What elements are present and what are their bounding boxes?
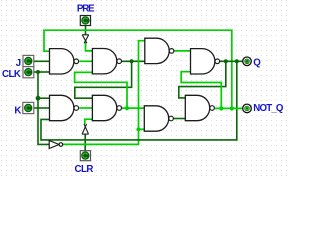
node D output junction 1 [224, 59, 228, 63]
node H output junction 1 [219, 106, 223, 110]
wire inverted clock from U9 to gates U3 and U7 [63, 41, 145, 145]
input button CLR [80, 151, 90, 161]
wire B output cross-couple to gate U6 input [75, 61, 132, 98]
svg-text:CLR: CLR [75, 164, 94, 175]
NAND gate U4 (slave latch Q) [191, 49, 220, 74]
wire H output to NOT_Q [215, 107, 242, 109]
wire PRE net side to gate U2 input [86, 42, 93, 51]
wire CLK to gate U1 input [34, 71, 50, 73]
wire J to gate U1 input [34, 60, 50, 62]
node F output junction [125, 106, 129, 110]
input button J [23, 55, 34, 66]
inverter U9 (clock) [49, 141, 63, 149]
node H output junction 2 [230, 106, 234, 110]
wire H output cross-couple to gate U4 input [181, 72, 221, 109]
wire NOT_Q feedback rail [44, 30, 232, 108]
svg-text:CLK: CLK [2, 69, 21, 80]
input button PRE [80, 16, 90, 26]
label PRE [77, 3, 95, 14]
output LED Q [243, 57, 252, 66]
wire C output to gate U4 [174, 50, 190, 52]
NAND gate U1 (J input) [50, 49, 79, 74]
wire CLR net side to gate U6 input [85, 119, 93, 124]
label NOT_Q [253, 103, 284, 114]
NAND gate U6 (master latch) [92, 95, 121, 120]
NAND gate U3 (clock gate top) [145, 38, 174, 63]
wire CLR box side [84, 134, 86, 151]
label CLR [75, 164, 94, 175]
NAND gate U5 (K input) [50, 95, 79, 120]
wire F output to gate U7 [122, 107, 145, 109]
wire D output to Q [220, 60, 243, 62]
wire E output to gate U6 [79, 107, 92, 109]
wire A output to gate U2 [79, 60, 92, 62]
wire PRE box side [85, 26, 87, 35]
wire Q feedback to gate U5 input [41, 61, 237, 140]
node D output junction 2 [235, 59, 239, 63]
node CLK junction at gate A [36, 70, 40, 74]
input button K [23, 102, 34, 113]
label Q [253, 57, 261, 68]
wire F output cross-couple to gate U2 input [75, 72, 127, 108]
svg-text:K: K [14, 105, 21, 116]
input button CLK [23, 67, 34, 78]
wire CLK branch to gate U5 input [38, 97, 50, 99]
wire B output to gate U3 [122, 60, 145, 62]
svg-text:Q: Q [253, 57, 261, 68]
wire K to gate U5 input [34, 107, 50, 109]
node CLK junction at gate E [36, 96, 41, 101]
pin arrow on CLR wire [82, 124, 89, 134]
wire G output to gate U8 [174, 118, 185, 120]
node B output junction [130, 59, 134, 63]
wire CLK vertical trunk [38, 72, 49, 144]
pin arrow on PRE wire [82, 35, 89, 44]
wire inverted clock branch to gate U7 input [139, 128, 145, 130]
svg-text:J: J [16, 58, 21, 69]
NAND gate U7 (clock gate bottom) [144, 106, 173, 131]
label CLK [2, 69, 21, 80]
NAND gate U8 (slave latch NOT_Q) [185, 95, 214, 120]
wire D output cross-couple to gate U8 input [179, 61, 226, 98]
label J [16, 58, 21, 69]
NAND gate U2 (master latch) [92, 49, 121, 74]
svg-text:PRE: PRE [77, 3, 95, 14]
output LED NOT_Q [243, 104, 252, 113]
svg-text:NOT_Q: NOT_Q [253, 103, 284, 114]
node inverted clock junction [136, 127, 140, 131]
label K [14, 105, 21, 116]
